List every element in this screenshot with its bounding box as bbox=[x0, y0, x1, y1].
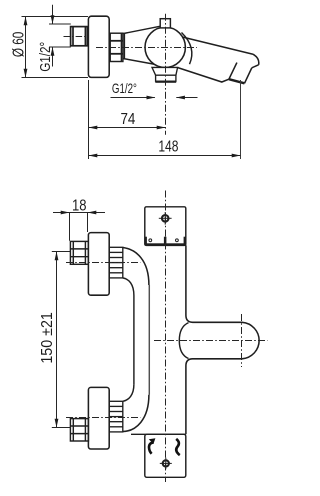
svg-text:G1/2°: G1/2° bbox=[112, 80, 137, 96]
top escutcheon (front view) bbox=[88, 233, 109, 296]
hex connection nut (side view) bbox=[110, 33, 123, 61]
outlet flange under body bbox=[152, 67, 178, 75]
spout top edge bbox=[169, 34, 253, 54]
vertical centerline through body and outlet bbox=[165, 14, 167, 135]
dimension G1/2 wall-pipe extension top bbox=[49, 23, 71, 25]
dimension G1/2 wall-pipe line upper bbox=[52, 5, 54, 24]
dimension 18 line bbox=[53, 212, 105, 214]
aerator on spout bbox=[229, 63, 259, 84]
spout boss horizontal centerline bbox=[154, 340, 268, 342]
outlet pipe thread end band bbox=[155, 81, 176, 83]
bottom threaded eccentric bbox=[109, 401, 123, 432]
top bracket thick lower edge bbox=[144, 243, 186, 245]
dimension 150±21 line bbox=[56, 252, 58, 428]
body bottom edge bbox=[131, 433, 186, 435]
cold symbol bbox=[176, 439, 180, 455]
spout underside bbox=[178, 68, 229, 82]
dimension 148 arrowhead left bbox=[89, 154, 98, 158]
top elbow inner curve bbox=[123, 278, 134, 296]
top bracket slot marks bbox=[144, 237, 147, 244]
dimension G1/2 wall-pipe extension bottom bbox=[49, 46, 71, 48]
top bracket small holes bbox=[149, 239, 152, 242]
dimension G1/2 outlet arrowhead right bbox=[176, 96, 185, 100]
dimension 74 arrowhead right bbox=[157, 126, 166, 130]
bottom escutcheon (front view) bbox=[88, 387, 109, 449]
bottom connector centerline bbox=[66, 417, 141, 419]
wall axis extension top bbox=[52, 251, 71, 253]
dimension 74 arrowhead left bbox=[89, 126, 98, 130]
dimension 18 arrowhead left bbox=[61, 211, 70, 215]
body right edge with spout boss bbox=[186, 245, 259, 434]
bottom mounting bracket bbox=[145, 434, 186, 477]
bottom elbow inner curve bbox=[123, 384, 134, 401]
cone between nut and body bbox=[124, 26, 161, 64]
dimension 18 arrowhead right bbox=[88, 211, 97, 215]
svg-text:148: 148 bbox=[158, 138, 178, 155]
dimension 148 extension right bbox=[240, 80, 242, 159]
dimension Ø60 extension line top bbox=[22, 16, 89, 18]
dimension G1/2 outlet arrowhead left bbox=[147, 96, 156, 100]
dimension G1/2 wall-pipe arrow lower bbox=[51, 47, 55, 56]
outlet pipe G1/2 bbox=[156, 75, 176, 81]
dimension 18 extension left bbox=[69, 213, 71, 241]
top bracket screw hole bbox=[159, 212, 172, 225]
bottom elbow outer curve bbox=[123, 395, 149, 432]
spout boss base arc bbox=[179, 323, 188, 359]
svg-text:Ø 60: Ø 60 bbox=[11, 32, 28, 58]
dimension Ø60 extension line bottom bbox=[22, 77, 89, 79]
svg-text:74: 74 bbox=[120, 111, 135, 128]
spout tip arc bbox=[253, 54, 259, 65]
top elbow outer curve bbox=[123, 248, 149, 286]
dimension 148 arrowhead right bbox=[232, 154, 241, 158]
dimension G1/2 wall-pipe line lower bbox=[52, 47, 54, 67]
wall pipe square connector bbox=[71, 27, 88, 46]
top threaded eccentric bbox=[109, 247, 123, 278]
svg-text:18: 18 bbox=[72, 198, 87, 215]
dimension 148 line bbox=[89, 155, 241, 157]
top mounting bracket bbox=[145, 207, 186, 246]
dimension 74 line bbox=[89, 127, 166, 129]
bottom bracket screw hole bbox=[160, 458, 172, 470]
spout boss vertical centerline bbox=[241, 314, 243, 367]
escutcheon plate (side view) bbox=[88, 16, 109, 77]
dimension 150±21 arrowhead bottom bbox=[55, 419, 59, 428]
svg-text:G1/2°: G1/2° bbox=[37, 42, 54, 72]
wall axis extension bottom bbox=[52, 427, 71, 429]
dimension 74 extension left bbox=[88, 80, 90, 159]
bottom hex nut (front view) bbox=[70, 419, 88, 441]
thermostat round body bbox=[145, 27, 185, 67]
dimension 18 extension right bbox=[87, 213, 89, 233]
pipe right edge bbox=[148, 285, 150, 395]
main horizontal centerline bbox=[96, 47, 197, 49]
dimension Ø60 arrow top bbox=[24, 17, 28, 26]
dimension G1/2 wall-pipe arrow upper bbox=[51, 15, 55, 24]
dimension G1/2 outlet arrow shafts bbox=[111, 97, 198, 99]
knob on top of body bbox=[160, 19, 170, 28]
spout base ellipse arc bbox=[182, 33, 192, 65]
wall pipe centerline bbox=[64, 36, 93, 38]
dimension Ø60 line bbox=[25, 17, 27, 78]
dimension 150±21 arrowhead top bbox=[55, 252, 59, 261]
main vertical centerline bbox=[165, 191, 167, 483]
svg-text:150 ±21: 150 ±21 bbox=[39, 312, 56, 364]
hot symbol bbox=[149, 443, 154, 454]
dimension Ø60 arrow bottom bbox=[24, 69, 28, 78]
pipe left edge bbox=[133, 296, 135, 385]
top connector centerline bbox=[66, 262, 141, 264]
top hex nut (front view) bbox=[70, 241, 88, 264]
